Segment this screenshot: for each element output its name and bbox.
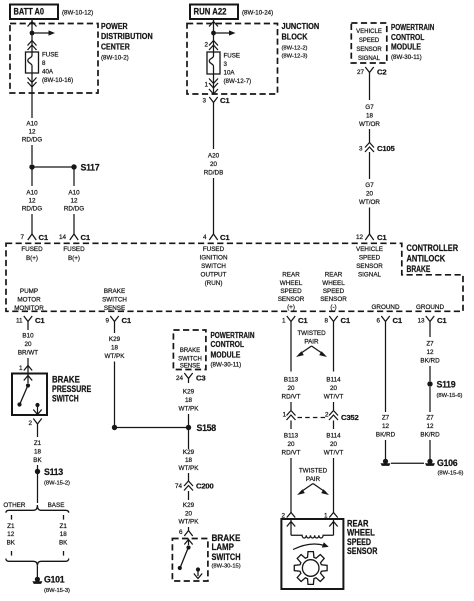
svg-text:(8W-30-11): (8W-30-11) [391, 54, 422, 61]
connector pin 24 C3 [176, 373, 205, 383]
wire label Z1 18 BK [33, 429, 42, 464]
svg-text:20: 20 [210, 161, 218, 168]
svg-text:10A: 10A [224, 70, 236, 77]
svg-text:CONTROLLER: CONTROLLER [407, 243, 459, 253]
wire to pin 12 [369, 208, 371, 235]
dashed branch stub left lower [11, 551, 13, 556]
svg-text:SPEED: SPEED [359, 255, 381, 262]
fuse output pin 1 [204, 74, 218, 94]
svg-text:BASE: BASE [48, 502, 65, 509]
svg-text:(RUN): (RUN) [205, 280, 223, 287]
svg-text:BR/WT: BR/WT [18, 350, 38, 357]
twisted pair callout upper [296, 330, 327, 357]
svg-text:SWITCH: SWITCH [102, 297, 127, 304]
wire from pin 6 to ground [376, 326, 396, 459]
svg-text:C2: C2 [377, 68, 386, 77]
wire to A20 label [213, 107, 215, 149]
brake lamp switch [172, 533, 240, 581]
svg-text:OTHER: OTHER [3, 502, 25, 509]
svg-text:Z7: Z7 [426, 341, 434, 348]
wire label B10 20 BR/WT [18, 326, 38, 357]
svg-text:K29: K29 [109, 336, 121, 343]
connector pin 8 C1 [324, 316, 350, 326]
svg-text:K29: K29 [183, 502, 195, 509]
svg-text:DISTRIBUTION: DISTRIBUTION [101, 32, 153, 41]
svg-text:18: 18 [366, 113, 374, 120]
svg-text:BK: BK [59, 539, 68, 546]
svg-text:G7: G7 [365, 104, 374, 111]
svg-text:TWISTED: TWISTED [297, 330, 326, 337]
svg-text:1: 1 [204, 82, 208, 89]
svg-text:8: 8 [324, 318, 328, 325]
svg-text:6: 6 [376, 318, 380, 325]
svg-text:SENSOR: SENSOR [320, 296, 347, 303]
fuse output wire [28, 73, 37, 118]
svg-text:POWER: POWER [101, 22, 128, 31]
svg-text:20: 20 [330, 385, 338, 392]
svg-text:WHEEL: WHEEL [280, 280, 303, 287]
svg-text:CONTROL: CONTROL [211, 340, 245, 349]
connector pin 13 C1 [417, 316, 447, 326]
sensor pin 2 [281, 513, 295, 520]
left branch wire [31, 169, 33, 186]
svg-text:(8W-30-11): (8W-30-11) [211, 361, 242, 368]
svg-text:Z1: Z1 [7, 523, 15, 530]
wire label A10 12 RD/DG [64, 190, 84, 213]
svg-text:RD/DB: RD/DB [204, 170, 224, 177]
svg-text:OUTPUT: OUTPUT [201, 272, 227, 279]
svg-text:A10: A10 [26, 190, 38, 197]
svg-text:(8W-30-15): (8W-30-15) [212, 564, 241, 570]
svg-text:WT/PK: WT/PK [105, 353, 126, 360]
wire B113 upper [282, 326, 301, 410]
svg-text:WT/PK: WT/PK [179, 406, 200, 413]
svg-text:RD/DG: RD/DG [22, 137, 42, 144]
svg-text:SWITCH: SWITCH [201, 263, 226, 270]
svg-text:(8W-12-3): (8W-12-3) [282, 54, 308, 60]
in-line connector C105 [359, 143, 396, 154]
svg-text:WHEEL: WHEEL [322, 280, 345, 287]
wire B114 lower [324, 421, 344, 514]
svg-text:S113: S113 [44, 467, 63, 477]
wire label G7 18 WT/OR [359, 104, 380, 128]
pin label REAR WHEEL SPEED SENSOR (+) [278, 272, 305, 312]
svg-text:Z7: Z7 [382, 415, 390, 422]
rear wheel speed sensor [281, 519, 377, 589]
dashed branch stub right lower [63, 551, 65, 556]
svg-text:11: 11 [16, 318, 23, 325]
svg-text:MONITOR: MONITOR [14, 305, 44, 312]
svg-text:BRAKE: BRAKE [52, 374, 80, 384]
pin label FUSED B(+) [21, 246, 43, 262]
svg-text:SIGNAL: SIGNAL [358, 56, 381, 62]
svg-text:C352: C352 [341, 413, 359, 422]
wire B114 upper [324, 326, 344, 410]
svg-text:(8W-10-24): (8W-10-24) [242, 10, 273, 17]
svg-text:C1: C1 [220, 233, 230, 242]
node / branch arrow in JB [211, 30, 235, 35]
svg-text:B114: B114 [326, 433, 341, 440]
brace merge bottom [6, 559, 69, 566]
svg-text:(8W-15-6): (8W-15-6) [438, 471, 464, 477]
svg-text:(8W-15-2): (8W-15-2) [44, 481, 70, 487]
svg-text:WT/PK: WT/PK [179, 465, 200, 472]
svg-text:12: 12 [426, 349, 434, 356]
brake pressure switch [12, 374, 91, 416]
svg-text:MODULE: MODULE [211, 351, 241, 360]
wire B113 lower [282, 421, 301, 514]
wire [369, 152, 371, 179]
svg-text:RD/VT: RD/VT [282, 450, 301, 457]
ignition feed RUN A22 [190, 5, 273, 20]
in-line connector C352 [282, 411, 358, 423]
svg-text:C3: C3 [196, 374, 205, 383]
svg-text:FUSED: FUSED [203, 246, 225, 253]
svg-text:C1: C1 [298, 316, 308, 325]
svg-text:FUSED: FUSED [21, 246, 43, 253]
twisted pair callout lower [297, 468, 329, 496]
svg-text:SENSE: SENSE [104, 305, 125, 312]
svg-text:C1: C1 [377, 233, 387, 242]
svg-text:SWITCH: SWITCH [212, 552, 241, 562]
svg-text:FUSE: FUSE [42, 52, 59, 59]
svg-text:(-): (-) [330, 304, 336, 311]
svg-text:3: 3 [359, 146, 363, 153]
wire batt to fuse [28, 19, 37, 52]
svg-text:C1: C1 [81, 233, 91, 242]
svg-text:S117: S117 [81, 163, 100, 173]
wire run to fuse [204, 19, 218, 52]
dashed branch stub left [11, 515, 13, 520]
svg-text:RD/DG: RD/DG [64, 206, 84, 213]
svg-text:BLOCK: BLOCK [282, 33, 308, 42]
wire from pin 13 [420, 326, 440, 381]
svg-text:WT/VT: WT/VT [324, 450, 344, 457]
svg-text:(8W-12-2): (8W-12-2) [282, 45, 308, 51]
svg-text:18: 18 [34, 449, 42, 456]
svg-text:SENSOR: SENSOR [356, 263, 383, 270]
svg-text:K29: K29 [183, 389, 195, 396]
svg-text:GROUND: GROUND [372, 304, 400, 311]
svg-text:(8W-10-16): (8W-10-16) [42, 77, 73, 84]
pin label FUSED B(+) [63, 246, 85, 262]
wire [369, 129, 371, 143]
svg-text:K29: K29 [183, 449, 195, 456]
fuse 8 40A [26, 52, 74, 85]
wire [369, 77, 371, 100]
svg-text:WT/OR: WT/OR [359, 199, 380, 206]
svg-text:MOTOR: MOTOR [17, 297, 41, 304]
svg-text:12: 12 [7, 531, 15, 538]
svg-text:PRESSURE: PRESSURE [52, 384, 91, 394]
svg-text:Z1: Z1 [60, 523, 68, 530]
svg-text:C1: C1 [122, 316, 132, 325]
wire to pin 4 [213, 178, 215, 234]
svg-text:FUSED: FUSED [63, 246, 85, 253]
svg-text:FUSE: FUSE [224, 53, 241, 60]
svg-text:3: 3 [224, 61, 228, 68]
svg-text:6: 6 [179, 529, 183, 536]
svg-text:12: 12 [382, 423, 390, 430]
svg-text:(8W-15-3): (8W-15-3) [44, 588, 70, 594]
svg-text:VEHICLE: VEHICLE [356, 246, 383, 253]
connector pin 11 C1 [16, 316, 45, 326]
svg-text:B(+): B(+) [68, 255, 80, 262]
pin label PUMP MOTOR MONITOR [14, 288, 44, 312]
connector pin 4 C1 [203, 233, 230, 242]
svg-text:VEHICLE: VEHICLE [356, 29, 382, 35]
svg-text:BK/RD: BK/RD [420, 432, 440, 439]
connector pin 27 C2 [357, 67, 386, 77]
svg-text:20: 20 [287, 385, 295, 392]
svg-text:4: 4 [203, 234, 207, 241]
svg-text:2: 2 [325, 412, 329, 419]
svg-text:Z7: Z7 [426, 415, 434, 422]
svg-text:SENSOR: SENSOR [356, 47, 382, 53]
svg-text:REAR: REAR [325, 272, 343, 279]
svg-text:G7: G7 [365, 182, 374, 189]
svg-text:TWISTED: TWISTED [299, 468, 328, 475]
svg-text:C105: C105 [377, 144, 396, 153]
svg-text:12: 12 [28, 198, 36, 205]
wire [188, 473, 190, 482]
svg-text:(+): (+) [287, 304, 295, 311]
svg-text:BATT A0: BATT A0 [14, 7, 45, 17]
svg-text:A20: A20 [208, 153, 220, 160]
junction block box [187, 22, 319, 94]
svg-text:SENSOR: SENSOR [278, 296, 305, 303]
svg-text:C1: C1 [39, 233, 49, 242]
svg-text:BRAKE: BRAKE [180, 348, 200, 354]
connector pin 12 C1 [356, 233, 387, 242]
brace split top [6, 505, 69, 513]
svg-text:18: 18 [111, 345, 119, 352]
wire to pin 14 [73, 214, 75, 234]
svg-text:12: 12 [426, 423, 434, 430]
wire label K29 20 WT/PK [179, 491, 200, 526]
svg-text:WT/OR: WT/OR [359, 121, 380, 128]
connector 3 C1 below junction block [202, 96, 230, 107]
svg-text:CONTROL: CONTROL [391, 33, 425, 42]
svg-text:20: 20 [24, 341, 32, 348]
wire to splice [188, 414, 190, 449]
splice S113 [35, 465, 70, 487]
svg-text:PAIR: PAIR [306, 476, 321, 483]
connector pin 6 C1 [376, 316, 402, 326]
svg-text:2: 2 [28, 420, 32, 427]
svg-text:SENSOR: SENSOR [347, 546, 378, 556]
fuse 3 10A [207, 52, 251, 85]
controller antilock brake box [6, 243, 463, 311]
svg-text:SIGNAL: SIGNAL [358, 272, 382, 279]
connector pin 6 into brake lamp switch [179, 527, 193, 536]
svg-text:RD/VT: RD/VT [282, 394, 301, 401]
svg-text:A10: A10 [26, 121, 38, 128]
svg-text:S119: S119 [437, 380, 456, 390]
sensor pin 1 [324, 513, 338, 520]
svg-text:WT/VT: WT/VT [324, 394, 344, 401]
wire label K29 18 WT/PK below splice [179, 449, 200, 472]
svg-text:WT/PK: WT/PK [179, 519, 200, 526]
svg-text:40A: 40A [42, 69, 54, 76]
svg-text:SWITCH: SWITCH [178, 357, 202, 363]
connector pin 2 below switch [28, 419, 41, 430]
wire label A10 12 RD/DG [22, 190, 42, 213]
wire label K29 18 WT/PK (from pin 9) [105, 326, 126, 360]
connector pin 7 C1 [20, 233, 48, 242]
svg-text:C1: C1 [341, 316, 351, 325]
svg-text:G101: G101 [44, 575, 65, 585]
svg-text:74: 74 [175, 483, 183, 490]
svg-text:ANTILOCK: ANTILOCK [407, 254, 446, 264]
svg-text:BRAKE: BRAKE [407, 264, 431, 274]
svg-text:BK/RD: BK/RD [420, 358, 440, 365]
svg-text:1: 1 [19, 365, 23, 372]
svg-text:GROUND: GROUND [416, 304, 444, 311]
svg-text:12: 12 [28, 129, 36, 136]
svg-text:B113: B113 [284, 433, 299, 440]
svg-text:(8W-10-2): (8W-10-2) [101, 54, 129, 61]
svg-text:20: 20 [366, 191, 374, 198]
svg-text:RD/DG: RD/DG [22, 206, 42, 213]
svg-text:SPEED: SPEED [323, 288, 345, 295]
wire down to junction [114, 362, 116, 428]
svg-text:C1: C1 [35, 316, 45, 325]
svg-text:SWITCH: SWITCH [52, 394, 79, 404]
splice S117 [29, 163, 99, 173]
node / branch arrow in PDC [30, 30, 55, 35]
wire to ground [36, 566, 38, 577]
wire label K29 18 WT/PK [179, 389, 200, 413]
svg-text:MODULE: MODULE [391, 43, 421, 52]
svg-text:B114: B114 [326, 377, 341, 384]
svg-text:(8W-10-12): (8W-10-12) [62, 10, 93, 17]
svg-text:SPEED: SPEED [280, 288, 302, 295]
svg-text:A10: A10 [68, 190, 80, 197]
svg-text:SPEED: SPEED [359, 38, 380, 44]
ground G101 [32, 575, 70, 595]
junction dot at S158 tie [112, 425, 189, 430]
svg-text:12: 12 [356, 234, 364, 241]
splice S119 [427, 380, 462, 400]
wire label Z1 18 BK (base) [59, 523, 68, 546]
powertrain control module (brake switch sense) box [173, 330, 254, 370]
svg-text:RUN A22: RUN A22 [194, 7, 227, 17]
pin label BRAKE SWITCH SENSE [102, 288, 127, 312]
tone wheel gear [294, 552, 327, 585]
svg-text:20: 20 [330, 441, 338, 448]
svg-text:LAMP: LAMP [212, 542, 234, 552]
svg-text:BK: BK [7, 539, 16, 546]
wire label A10 12 RD/DG [22, 121, 42, 144]
svg-text:JUNCTION: JUNCTION [282, 22, 320, 31]
pin label REAR WHEEL SPEED SENSOR (-) [320, 272, 347, 312]
svg-text:G106: G106 [437, 458, 458, 468]
ground G106 pair [381, 458, 464, 477]
svg-text:3: 3 [202, 98, 206, 105]
svg-text:2: 2 [204, 42, 208, 49]
svg-text:BRAKE: BRAKE [104, 288, 125, 295]
connector pin 1 C1 [282, 316, 308, 326]
svg-text:12: 12 [70, 198, 78, 205]
powertrain control module (top) box [351, 23, 434, 63]
svg-text:B113: B113 [284, 377, 299, 384]
svg-text:1: 1 [282, 318, 286, 325]
right branch wire [73, 169, 75, 186]
svg-text:POWERTRAIN: POWERTRAIN [391, 23, 435, 32]
wire label Z1 12 BK (other) [7, 523, 16, 546]
svg-text:13: 13 [417, 318, 425, 325]
power distribution center box [10, 22, 153, 93]
svg-text:C200: C200 [196, 482, 214, 491]
svg-text:C1: C1 [393, 316, 403, 325]
svg-text:C1: C1 [437, 316, 447, 325]
svg-text:7: 7 [20, 234, 24, 241]
svg-text:27: 27 [357, 69, 365, 76]
svg-text:18: 18 [185, 397, 193, 404]
pin label FUSED IGNITION SWITCH OUTPUT (RUN) [200, 246, 228, 287]
svg-text:(8W-15-6): (8W-15-6) [437, 393, 463, 399]
svg-text:PAIR: PAIR [304, 339, 319, 346]
svg-text:20: 20 [287, 441, 295, 448]
svg-text:PUMP: PUMP [20, 288, 38, 295]
svg-text:B10: B10 [22, 333, 34, 340]
svg-text:20: 20 [185, 511, 193, 518]
dashed branch stub right [63, 515, 65, 520]
svg-text:REAR: REAR [282, 272, 300, 279]
svg-text:Z1: Z1 [34, 440, 42, 447]
wire to splice [31, 145, 33, 164]
svg-text:BK: BK [33, 457, 42, 464]
wire below S119 [420, 387, 440, 459]
pin label VEHICLE SPEED SENSOR SIGNAL [356, 246, 383, 279]
svg-text:18: 18 [185, 457, 193, 464]
svg-text:B(+): B(+) [26, 255, 38, 262]
svg-text:18: 18 [60, 531, 68, 538]
svg-text:14: 14 [59, 234, 67, 241]
svg-text:SENSE: SENSE [180, 363, 200, 369]
svg-text:CENTER: CENTER [101, 43, 130, 52]
connector pin 9 C1 [105, 316, 131, 326]
svg-text:S158: S158 [197, 423, 217, 433]
svg-text:C1: C1 [220, 96, 230, 105]
connector pin 14 C1 [59, 233, 91, 242]
svg-text:1: 1 [282, 412, 286, 419]
wire to brake pressure switch pin 1 [19, 358, 32, 373]
in-line connector C200 [175, 481, 214, 491]
battery feed BATT A0 [10, 5, 93, 20]
wire label G7 20 WT/OR [359, 182, 380, 206]
wire label A20 20 RD/DB [204, 153, 224, 177]
svg-text:9: 9 [105, 318, 109, 325]
svg-text:POWERTRAIN: POWERTRAIN [211, 331, 255, 340]
svg-text:IGNITION: IGNITION [200, 255, 228, 262]
svg-text:BK/RD: BK/RD [376, 432, 396, 439]
wire to split [37, 474, 39, 503]
svg-text:8: 8 [42, 60, 46, 67]
wire to pin 7 [31, 214, 33, 234]
splice S158 [186, 423, 216, 433]
svg-text:(8W-12-7): (8W-12-7) [224, 78, 252, 85]
svg-text:24: 24 [176, 375, 184, 382]
